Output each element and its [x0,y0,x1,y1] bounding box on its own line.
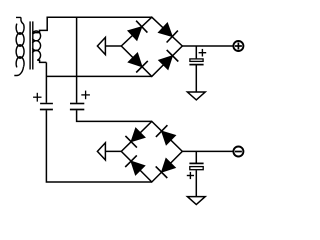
wire C3 to ground [195,65,197,92]
capacitor C4 [189,163,203,169]
wire C1 bottom to bridge BR2 bottom vertex [46,110,151,182]
wire C4 to ground [195,170,197,196]
terminal -V output [233,147,243,157]
wire secondary bottom staircase [37,60,46,62]
capacitor C3 [189,59,203,65]
wire junction to C4 [195,151,197,163]
wire BR1 right vertex to +V terminal [182,45,233,47]
diode D8 [156,158,176,178]
common arrow at BR1 left vertex [97,37,121,54]
wire top rail to C2 top lead [76,17,78,103]
capacitor C2 [70,104,84,110]
ground GND1 [187,92,205,100]
C4 plus polarity label [187,172,194,179]
diode D7 [125,155,145,175]
wire junction to C3 [195,46,197,58]
ground GND2 [187,197,205,205]
wire C2 bottom to bridge BR2 top vertex [77,110,152,121]
wire secondary top to bridge BR1 top vertex [33,17,152,34]
C1 plus polarity label [33,93,41,102]
bridge BR2 diamond [121,121,182,182]
transformer T1 primary winding [16,17,24,24]
diode D4 [159,50,179,70]
terminal +V output [233,41,243,51]
C2 plus polarity label [81,91,90,100]
diode D6 [156,125,176,145]
diode D2 [158,23,178,43]
wire BR2 right vertex to -V terminal [182,150,233,152]
diode D5 [125,128,145,148]
diode D1 [128,21,147,41]
transformer T1 core [29,21,31,69]
bridge BR1 diamond [121,17,182,76]
wire bus to bridge BR1 bottom vertex [46,75,151,77]
capacitor C1 [40,104,53,110]
transformer T1 secondary winding [32,31,40,41]
common arrow at BR2 left vertex [97,143,121,160]
diode D3 [128,53,148,73]
wire node A vertical through C1 top lead [45,62,47,102]
C3 plus polarity label [199,49,207,57]
